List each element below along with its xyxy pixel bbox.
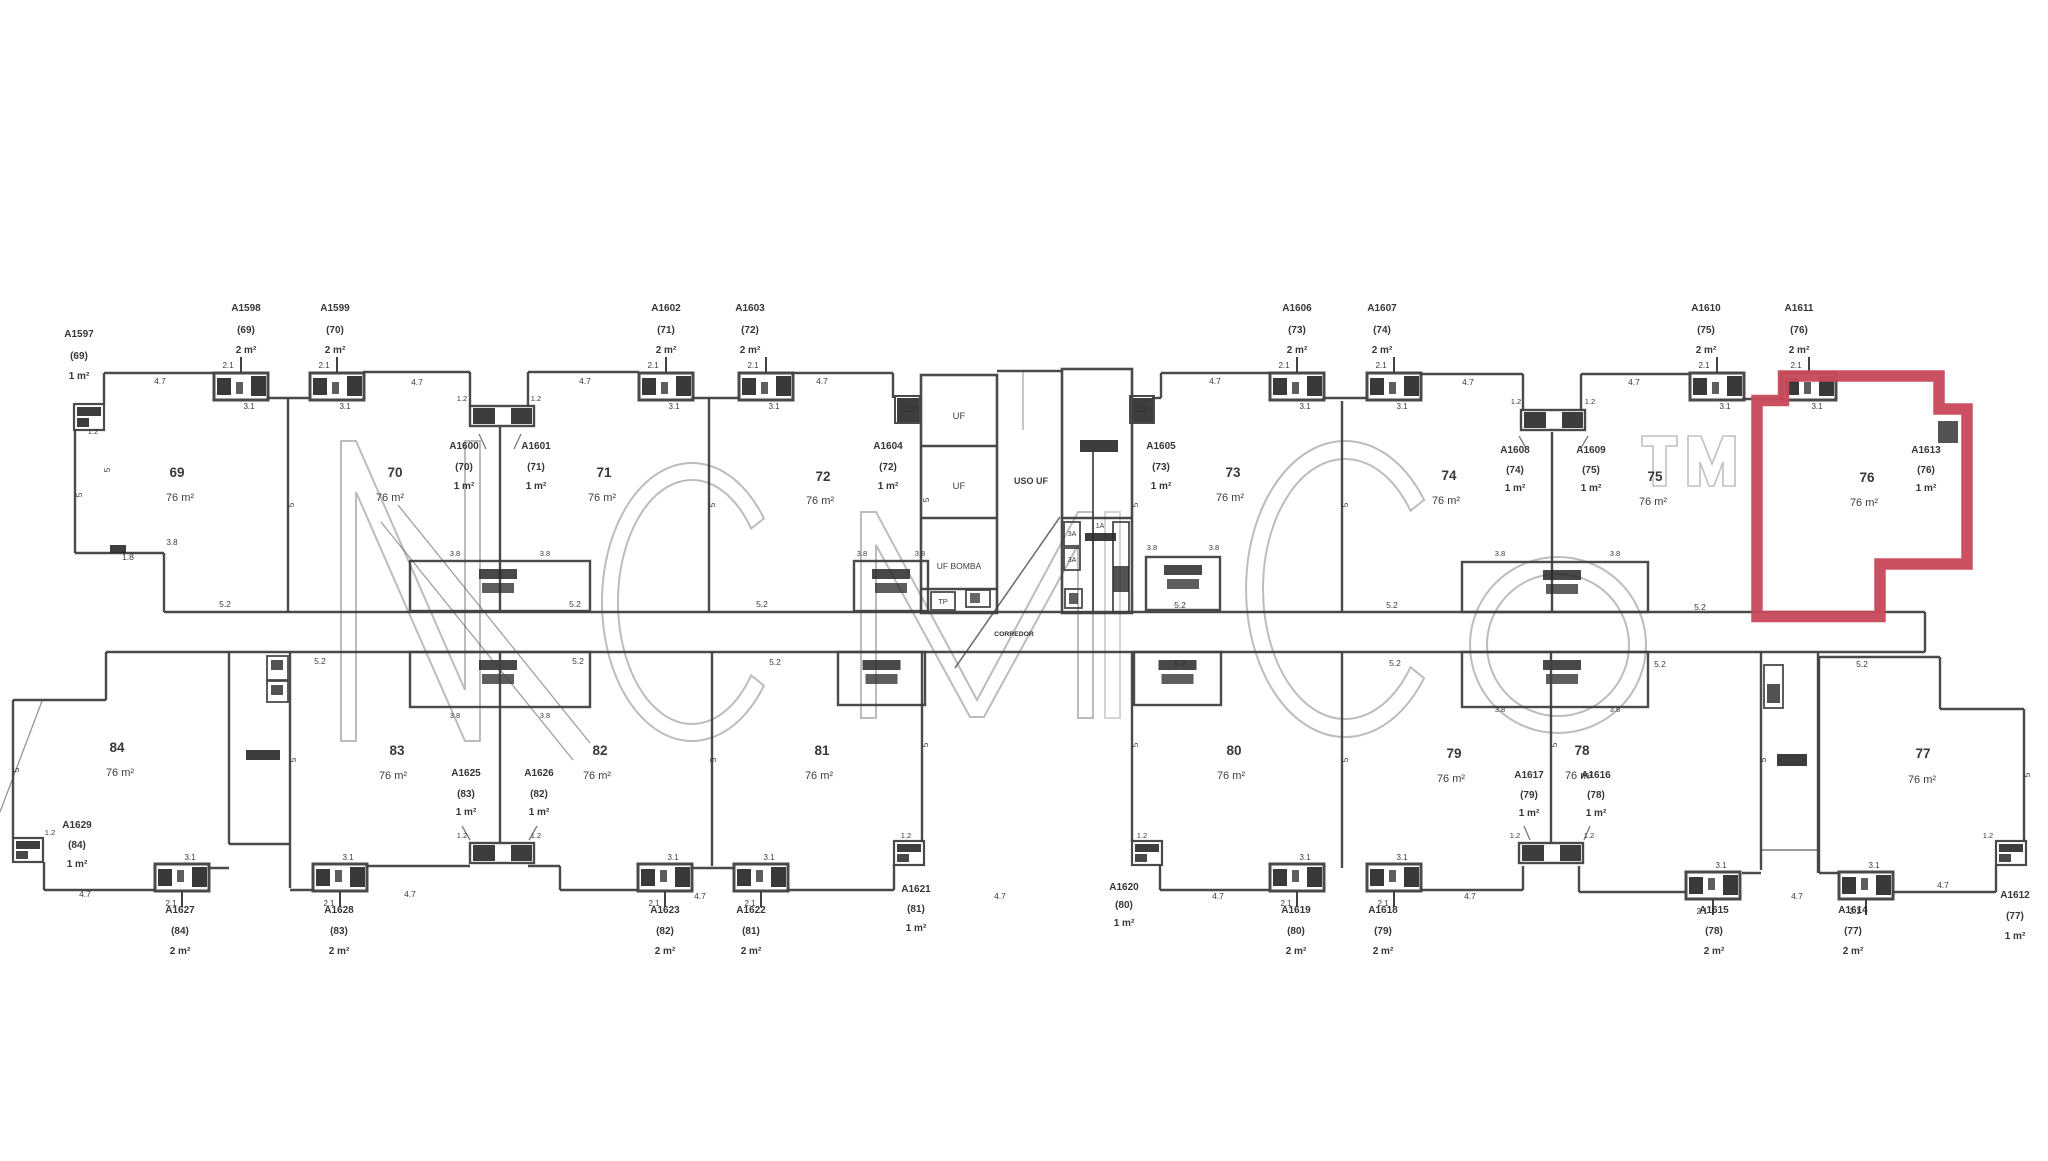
svg-text:4.7: 4.7 [694, 891, 706, 901]
svg-text:3.1: 3.1 [1719, 402, 1731, 411]
svg-text:3.1: 3.1 [1396, 402, 1408, 411]
svg-text:5.2: 5.2 [1174, 600, 1186, 610]
svg-text:3.8: 3.8 [450, 549, 460, 558]
svg-text:5: 5 [286, 502, 296, 507]
svg-text:5: 5 [1340, 757, 1350, 762]
svg-text:1A: 1A [1096, 523, 1105, 530]
svg-text:1 m²: 1 m² [1581, 483, 1602, 494]
svg-text:1.2: 1.2 [1584, 831, 1594, 840]
svg-text:(72): (72) [741, 325, 759, 336]
svg-text:A1606: A1606 [1282, 303, 1312, 314]
svg-text:69: 69 [169, 465, 184, 480]
watermark letter C2 [1246, 441, 1424, 737]
bathroom box lower 80 [1134, 652, 1221, 705]
svg-text:3.1: 3.1 [667, 853, 679, 862]
svg-text:2.1: 2.1 [1278, 361, 1290, 370]
svg-text:76 m²: 76 m² [1432, 495, 1460, 507]
svg-text:A1607: A1607 [1367, 303, 1397, 314]
svg-text:A1609: A1609 [1576, 445, 1606, 456]
svg-text:CORREDOR: CORREDOR [994, 631, 1034, 638]
divider 69/70 [287, 398, 289, 612]
svg-text:1 m²: 1 m² [1916, 483, 1937, 494]
svg-text:4.7: 4.7 [1209, 376, 1221, 386]
svg-text:70: 70 [387, 465, 402, 480]
svg-text:2 m²: 2 m² [329, 946, 350, 957]
svg-text:4.7: 4.7 [1628, 377, 1640, 387]
svg-text:1 m²: 1 m² [1114, 918, 1135, 929]
core right block [1062, 369, 1132, 613]
svg-text:84: 84 [109, 740, 125, 755]
svg-text:3.1: 3.1 [668, 402, 680, 411]
svg-text:A1616: A1616 [1581, 770, 1611, 781]
svg-text:3.1: 3.1 [1299, 853, 1311, 862]
svg-text:1.2: 1.2 [457, 394, 467, 403]
svg-text:5.2: 5.2 [1654, 659, 1666, 669]
svg-text:4.7: 4.7 [994, 891, 1006, 901]
svg-text:81: 81 [814, 743, 830, 758]
svg-text:5.2: 5.2 [569, 599, 581, 609]
bathroom box upper 73 [1146, 557, 1220, 610]
svg-text:3.1: 3.1 [1396, 853, 1408, 862]
svg-text:1 m²: 1 m² [1505, 483, 1526, 494]
svg-text:(77): (77) [1844, 926, 1862, 937]
svg-text:2 m²: 2 m² [1843, 946, 1864, 957]
svg-text:A1605: A1605 [1146, 441, 1176, 452]
svg-text:1.2: 1.2 [1137, 405, 1147, 414]
svg-text:5.2: 5.2 [1694, 602, 1706, 612]
window pair 83/82 [470, 843, 534, 863]
svg-text:4.7: 4.7 [1937, 880, 1949, 890]
svg-text:3.1: 3.1 [1811, 402, 1823, 411]
svg-text:A1621: A1621 [901, 884, 931, 895]
svg-text:TP: TP [938, 597, 948, 606]
svg-text:1.2: 1.2 [901, 831, 911, 840]
window pair 74/75 [1521, 410, 1585, 430]
svg-text:2 m²: 2 m² [170, 946, 191, 957]
svg-text:A1598: A1598 [231, 303, 261, 314]
svg-text:(72): (72) [879, 462, 897, 473]
svg-text:3.8: 3.8 [540, 549, 550, 558]
svg-text:2.1: 2.1 [647, 361, 659, 370]
terrace door unit 83 [313, 864, 367, 907]
svg-text:83: 83 [389, 743, 405, 758]
svg-text:5.2: 5.2 [1856, 659, 1868, 669]
divider 70/71 [499, 427, 501, 610]
svg-text:1 m²: 1 m² [1151, 481, 1172, 492]
svg-text:1 m²: 1 m² [1519, 808, 1540, 819]
svg-text:A1623: A1623 [650, 905, 680, 916]
svg-text:3.1: 3.1 [1868, 861, 1880, 870]
unit 69 left wall + window [103, 373, 105, 404]
svg-text:(73): (73) [1152, 462, 1170, 473]
svg-text:1 m²: 1 m² [67, 859, 88, 870]
svg-text:1.2: 1.2 [531, 831, 541, 840]
svg-text:3.1: 3.1 [342, 853, 354, 862]
svg-text:2.1: 2.1 [747, 361, 759, 370]
balcony door unit 69 [214, 357, 268, 400]
core UF block [921, 375, 997, 613]
svg-text:76 m²: 76 m² [588, 492, 616, 504]
watermark TM [1642, 436, 1735, 486]
bathroom box lower 81 [838, 652, 925, 705]
svg-text:1 m²: 1 m² [526, 481, 547, 492]
svg-text:(81): (81) [742, 926, 760, 937]
watermark letter I [1105, 512, 1120, 718]
svg-text:(74): (74) [1373, 325, 1391, 336]
balcony door unit 74 [1367, 357, 1421, 400]
svg-text:3.8: 3.8 [1495, 549, 1505, 558]
svg-text:(76): (76) [1790, 325, 1808, 336]
window pair 79/78 [1519, 843, 1583, 863]
svg-text:5.2: 5.2 [769, 657, 781, 667]
svg-text:76 m²: 76 m² [106, 767, 134, 779]
svg-text:4.7: 4.7 [1464, 891, 1476, 901]
bathroom box upper 72 [854, 561, 928, 611]
svg-text:5: 5 [708, 757, 718, 762]
svg-text:3.1: 3.1 [763, 853, 775, 862]
corridor top wall [164, 611, 1925, 613]
window 81 right [894, 841, 924, 865]
svg-text:3.8: 3.8 [1147, 543, 1157, 552]
balcony door unit 70 [310, 357, 364, 400]
divider 83/82 [499, 652, 501, 842]
svg-text:1 m²: 1 m² [878, 481, 899, 492]
svg-text:73: 73 [1225, 465, 1241, 480]
divider 79/78 [1550, 652, 1552, 842]
svg-text:3.8: 3.8 [1495, 705, 1505, 714]
svg-text:A1611: A1611 [1785, 303, 1814, 314]
svg-text:A1610: A1610 [1691, 303, 1721, 314]
svg-text:2 m²: 2 m² [1696, 345, 1717, 356]
svg-text:2.1: 2.1 [1790, 361, 1802, 370]
svg-text:(74): (74) [1506, 465, 1524, 476]
svg-text:5: 5 [74, 492, 84, 497]
svg-text:(71): (71) [657, 325, 675, 336]
window pair 70/71 [470, 406, 534, 426]
balcony door unit 73 [1270, 357, 1324, 400]
svg-text:A1603: A1603 [735, 303, 765, 314]
bathroom box lower-left [410, 652, 590, 707]
svg-text:2.1: 2.1 [222, 361, 234, 370]
svg-text:A1614: A1614 [1838, 905, 1868, 916]
svg-text:2 m²: 2 m² [1287, 345, 1308, 356]
svg-text:A1612: A1612 [2000, 890, 2030, 901]
svg-text:3.1: 3.1 [184, 853, 196, 862]
svg-text:A1627: A1627 [165, 905, 195, 916]
unit 84 walls + shaft [105, 652, 107, 700]
label leaders [479, 434, 486, 449]
svg-text:76 m²: 76 m² [1216, 492, 1244, 504]
svg-text:76 m²: 76 m² [805, 770, 833, 782]
svg-text:5.2: 5.2 [1174, 658, 1186, 668]
svg-text:1 m²: 1 m² [529, 807, 550, 818]
svg-text:(84): (84) [171, 926, 189, 937]
svg-text:A1615: A1615 [1699, 905, 1729, 916]
divider 80/79 [1341, 652, 1343, 868]
svg-text:76 m²: 76 m² [379, 770, 407, 782]
svg-text:2 m²: 2 m² [1286, 946, 1307, 957]
svg-text:1.2: 1.2 [1585, 397, 1595, 406]
svg-text:(71): (71) [527, 462, 545, 473]
svg-text:1.2: 1.2 [1983, 831, 1993, 840]
svg-text:5.2: 5.2 [1386, 600, 1398, 610]
svg-text:(70): (70) [326, 325, 344, 336]
svg-text:1.2: 1.2 [45, 828, 55, 837]
svg-text:2 m²: 2 m² [325, 345, 346, 356]
duct diagonal lines [398, 505, 590, 743]
terrace door unit 84 [155, 864, 209, 907]
svg-text:(82): (82) [656, 926, 674, 937]
svg-text:5: 5 [921, 497, 931, 502]
svg-text:72: 72 [815, 469, 830, 484]
divider 71/72 [708, 398, 710, 612]
svg-text:(84): (84) [68, 840, 86, 851]
svg-text:71: 71 [596, 465, 612, 480]
svg-text:(81): (81) [907, 904, 925, 915]
svg-text:2 m²: 2 m² [236, 345, 257, 356]
svg-text:1.2: 1.2 [1511, 397, 1521, 406]
window 72/core [897, 398, 919, 422]
svg-text:5.2: 5.2 [1389, 658, 1401, 668]
svg-text:5: 5 [2022, 772, 2032, 777]
svg-text:5: 5 [1340, 502, 1350, 507]
svg-text:4.7: 4.7 [579, 376, 591, 386]
svg-text:3.8: 3.8 [1610, 549, 1620, 558]
svg-text:5.2: 5.2 [314, 656, 326, 666]
svg-text:(78): (78) [1587, 790, 1605, 801]
svg-text:A1602: A1602 [651, 303, 681, 314]
svg-text:1 m²: 1 m² [2005, 931, 2026, 942]
svg-text:A1622: A1622 [736, 905, 766, 916]
svg-text:3.1: 3.1 [243, 402, 255, 411]
balcony door unit 71 [639, 357, 693, 400]
svg-text:2 m²: 2 m² [1372, 345, 1393, 356]
svg-text:A1619: A1619 [1281, 905, 1311, 916]
red outline unit 76 [1757, 376, 1967, 617]
unit 78 door + shaft TANDA [1686, 872, 1740, 915]
svg-text:3.8: 3.8 [166, 538, 178, 547]
svg-text:A1628: A1628 [324, 905, 354, 916]
svg-text:4.7: 4.7 [1462, 377, 1474, 387]
bathroom box upper-right [1462, 562, 1648, 612]
bathroom box upper-left [410, 561, 590, 611]
svg-text:4.7: 4.7 [1791, 891, 1803, 901]
svg-text:3.1: 3.1 [1715, 861, 1727, 870]
svg-text:1 m²: 1 m² [1586, 808, 1607, 819]
corridor right end wall [1924, 612, 1926, 652]
svg-text:2 m²: 2 m² [655, 946, 676, 957]
bottom walls 83-81 [290, 889, 313, 891]
terrace door unit 79 [1367, 864, 1421, 907]
svg-text:(76): (76) [1917, 465, 1935, 476]
svg-text:2.1: 2.1 [1698, 361, 1710, 370]
svg-text:5: 5 [1549, 742, 1559, 747]
svg-text:3.1: 3.1 [339, 402, 351, 411]
svg-text:74: 74 [1441, 468, 1457, 483]
svg-text:(82): (82) [530, 789, 548, 800]
svg-text:A1613: A1613 [1911, 445, 1941, 456]
bottom walls 79/78 [1421, 889, 1523, 891]
corridor bottom wall [106, 651, 1925, 653]
svg-text:2 m²: 2 m² [741, 946, 762, 957]
svg-text:UF: UF [953, 411, 966, 422]
svg-text:76 m²: 76 m² [806, 495, 834, 507]
svg-text:USO UF: USO UF [1014, 476, 1049, 486]
svg-text:A1625: A1625 [451, 768, 481, 779]
svg-text:3.8: 3.8 [1610, 705, 1620, 714]
svg-text:76 m²: 76 m² [1437, 773, 1465, 785]
svg-text:4.7: 4.7 [79, 889, 91, 899]
window A1613 unit 76 [1938, 421, 1958, 443]
svg-text:A1604: A1604 [873, 441, 903, 452]
terrace door unit 82 [638, 864, 692, 907]
svg-text:(75): (75) [1697, 325, 1715, 336]
svg-text:2 m²: 2 m² [1789, 345, 1810, 356]
svg-text:1.2: 1.2 [1137, 831, 1147, 840]
svg-text:A1601: A1601 [521, 441, 551, 452]
svg-text:5: 5 [1758, 757, 1768, 762]
svg-text:76 m²: 76 m² [1639, 496, 1667, 508]
svg-text:1.8: 1.8 [122, 552, 134, 562]
svg-text:1 m²: 1 m² [456, 807, 477, 818]
svg-text:77: 77 [1915, 746, 1930, 761]
watermark letter M [861, 512, 1093, 718]
svg-text:A1600: A1600 [449, 441, 479, 452]
svg-text:2 m²: 2 m² [1704, 946, 1725, 957]
svg-text:82: 82 [592, 743, 607, 758]
unit 80 left wall [1131, 652, 1133, 842]
svg-text:4.7: 4.7 [154, 376, 166, 386]
svg-text:5: 5 [920, 742, 930, 747]
svg-text:5: 5 [102, 467, 112, 472]
watermark letter O [1470, 557, 1646, 733]
svg-text:A1617: A1617 [1514, 770, 1544, 781]
svg-text:3.8: 3.8 [915, 549, 925, 558]
svg-text:4.7: 4.7 [816, 376, 828, 386]
svg-text:UF: UF [953, 481, 966, 492]
divider 73/74 [1341, 401, 1343, 612]
svg-text:A1629: A1629 [62, 820, 92, 831]
svg-text:2.1: 2.1 [318, 361, 330, 370]
svg-text:5.2: 5.2 [219, 599, 231, 609]
svg-text:1 m²: 1 m² [906, 923, 927, 934]
svg-text:78: 78 [1574, 743, 1590, 758]
svg-text:2 m²: 2 m² [740, 345, 761, 356]
watermark letter C [602, 463, 764, 741]
svg-text:76: 76 [1859, 470, 1875, 485]
svg-text:A1597: A1597 [64, 329, 94, 340]
unit 77 walls [1819, 656, 1940, 658]
svg-text:(69): (69) [237, 325, 255, 336]
svg-text:76 m²: 76 m² [1217, 770, 1245, 782]
svg-text:A1618: A1618 [1368, 905, 1398, 916]
svg-text:(78): (78) [1705, 926, 1723, 937]
svg-text:5: 5 [707, 502, 717, 507]
svg-text:76 m²: 76 m² [583, 770, 611, 782]
svg-text:5: 5 [1130, 502, 1140, 507]
svg-text:3.1: 3.1 [1299, 402, 1311, 411]
balcony door unit 75 [1690, 357, 1744, 400]
svg-text:2 m²: 2 m² [656, 345, 677, 356]
svg-text:3.1: 3.1 [768, 402, 780, 411]
svg-text:2.1: 2.1 [1375, 361, 1387, 370]
core middle USO UF [997, 370, 1062, 372]
svg-text:A1620: A1620 [1109, 882, 1139, 893]
svg-text:5.2: 5.2 [756, 599, 768, 609]
svg-text:76 m²: 76 m² [1908, 774, 1936, 786]
svg-text:1.2: 1.2 [531, 394, 541, 403]
svg-text:(77): (77) [2006, 911, 2024, 922]
svg-text:A1599: A1599 [320, 303, 350, 314]
svg-text:(83): (83) [330, 926, 348, 937]
svg-text:79: 79 [1446, 746, 1461, 761]
svg-text:5: 5 [11, 767, 21, 772]
svg-text:4.7: 4.7 [1212, 891, 1224, 901]
svg-text:76 m²: 76 m² [376, 492, 404, 504]
svg-text:(73): (73) [1288, 325, 1306, 336]
svg-text:3.8: 3.8 [857, 549, 867, 558]
svg-text:1 m²: 1 m² [69, 371, 90, 382]
divider 82/81 [711, 652, 713, 866]
svg-text:1.2: 1.2 [1510, 831, 1520, 840]
unit 81 right wall [921, 652, 923, 844]
svg-text:2 m²: 2 m² [1373, 946, 1394, 957]
svg-text:76 m²: 76 m² [166, 492, 194, 504]
svg-text:(80): (80) [1115, 900, 1133, 911]
terrace door unit 81 [734, 864, 788, 907]
bathroom box lower-right [1462, 652, 1648, 707]
balcony door unit 72 [739, 357, 793, 400]
svg-text:75: 75 [1647, 469, 1663, 484]
svg-text:1 m²: 1 m² [454, 481, 475, 492]
svg-text:(83): (83) [457, 789, 475, 800]
svg-text:1.2: 1.2 [88, 427, 98, 436]
svg-text:(79): (79) [1374, 926, 1392, 937]
svg-text:4.7: 4.7 [411, 377, 423, 387]
top row outer walls [104, 372, 214, 374]
svg-text:4.7: 4.7 [404, 889, 416, 899]
svg-text:3.8: 3.8 [1209, 543, 1219, 552]
balcony door unit 76 [1782, 357, 1836, 400]
svg-text:1.2: 1.2 [905, 405, 915, 414]
svg-text:(75): (75) [1582, 465, 1600, 476]
svg-text:5: 5 [288, 757, 298, 762]
svg-text:(79): (79) [1520, 790, 1538, 801]
svg-text:80: 80 [1226, 743, 1241, 758]
svg-text:3A: 3A [1068, 531, 1077, 538]
svg-text:(80): (80) [1287, 926, 1305, 937]
watermark letter N [341, 441, 480, 741]
svg-text:3.8: 3.8 [450, 711, 460, 720]
svg-text:5.2: 5.2 [572, 656, 584, 666]
svg-text:UF BOMBA: UF BOMBA [937, 561, 982, 571]
svg-text:(69): (69) [70, 351, 88, 362]
window core/73 [1132, 398, 1153, 422]
terrace door unit 80 [1270, 864, 1324, 907]
svg-text:A1626: A1626 [524, 768, 554, 779]
divider 74/75 [1551, 432, 1553, 611]
svg-text:3.8: 3.8 [540, 711, 550, 720]
svg-text:1.2: 1.2 [457, 831, 467, 840]
svg-text:3A: 3A [1068, 557, 1077, 564]
svg-text:(70): (70) [455, 462, 473, 473]
svg-text:76 m²: 76 m² [1850, 497, 1878, 509]
svg-text:5: 5 [1130, 742, 1140, 747]
